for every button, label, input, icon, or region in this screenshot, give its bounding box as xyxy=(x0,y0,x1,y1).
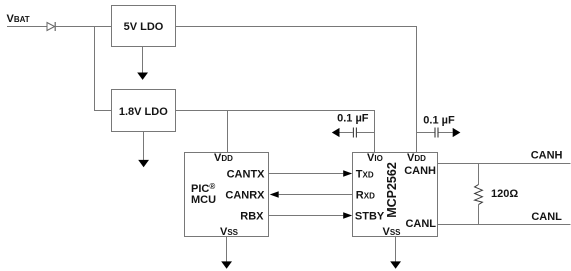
svg-text:MCP2562: MCP2562 xyxy=(385,162,399,218)
wire RBX to STBY with arrow xyxy=(269,212,353,219)
wire branch down to 1.8V LDO input xyxy=(95,27,112,111)
pin VDD of MCP2562 xyxy=(407,152,426,164)
capacitor C1 0.1uF on VIO xyxy=(337,113,374,138)
diode D1 xyxy=(47,22,55,31)
svg-text:CANTX: CANTX xyxy=(227,168,266,180)
ground below 5V LDO xyxy=(137,47,148,80)
pin VSS of MCP2562 xyxy=(383,226,402,238)
svg-text:MCU: MCU xyxy=(191,194,216,206)
node VBAT label xyxy=(7,13,30,25)
ground below 1.8V LDO xyxy=(138,132,149,168)
pin CANRX of PIC xyxy=(225,189,265,201)
wire CANH bus xyxy=(438,163,571,165)
ground arrow right of C2 xyxy=(453,128,461,137)
pin STBY of MCP2562 xyxy=(355,210,385,222)
label PIC(R) MCU xyxy=(191,182,216,206)
wire RXD to CANRX with arrow xyxy=(270,191,353,198)
wire CANTX to TXD with arrow xyxy=(269,170,353,177)
pin RBX of PIC xyxy=(240,210,264,222)
svg-text:RXD: RXD xyxy=(356,189,375,201)
MCU U3 PIC MCU box xyxy=(185,153,269,237)
label MCP2562 rotated xyxy=(385,162,399,218)
ground below MCP2562 VSS xyxy=(390,237,401,269)
pin VDD of PIC xyxy=(214,152,233,164)
svg-text:CANH: CANH xyxy=(404,165,436,177)
regulator U2 1.8V LDO xyxy=(112,90,176,132)
svg-text:TXD: TXD xyxy=(356,168,374,180)
pin RXD of MCP2562 xyxy=(356,189,375,201)
node CANH label xyxy=(531,150,563,162)
svg-text:CANL: CANL xyxy=(531,211,562,223)
wire diode cathode to 5V LDO input xyxy=(55,26,111,28)
svg-text:0.1 µF: 0.1 µF xyxy=(337,113,369,125)
ground arrow left of C1 xyxy=(332,128,340,137)
wire VBAT to diode anode xyxy=(7,26,47,28)
wire branch 1.8V rail to PIC VDD xyxy=(227,111,229,153)
transceiver U4 MCP2562 box xyxy=(353,153,438,237)
pin CANL of MCP2562 xyxy=(405,218,436,230)
svg-text:VDD: VDD xyxy=(407,152,426,164)
regulator U1 5V LDO xyxy=(112,6,176,47)
svg-text:VIO: VIO xyxy=(367,152,383,164)
svg-text:CANH: CANH xyxy=(531,150,563,162)
node CANL label xyxy=(531,211,562,223)
pin TXD of MCP2562 xyxy=(356,168,374,180)
svg-text:STBY: STBY xyxy=(355,210,385,222)
svg-text:VBAT: VBAT xyxy=(7,13,30,25)
resistor R1 120 ohm termination xyxy=(475,164,519,225)
svg-text:VSS: VSS xyxy=(220,226,239,238)
svg-text:VDD: VDD xyxy=(214,152,233,164)
wire 5V rail to MCP2562 VDD xyxy=(176,27,417,153)
wire 1.8V rail to MCP2562 VIO xyxy=(176,111,375,153)
svg-text:1.8V LDO: 1.8V LDO xyxy=(119,106,168,118)
capacitor C2 0.1uF on VDD xyxy=(417,114,455,137)
wire CANL bus xyxy=(438,224,571,226)
svg-text:VSS: VSS xyxy=(383,226,402,238)
svg-text:CANRX: CANRX xyxy=(225,189,265,201)
svg-text:120Ω: 120Ω xyxy=(491,188,518,200)
svg-text:5V LDO: 5V LDO xyxy=(124,21,164,33)
pin CANH of MCP2562 xyxy=(404,165,436,177)
svg-text:CANL: CANL xyxy=(405,218,436,230)
pin VSS of PIC xyxy=(220,226,239,238)
ground below PIC VSS xyxy=(221,237,232,269)
svg-text:0.1 µF: 0.1 µF xyxy=(423,114,455,126)
pin CANTX of PIC xyxy=(227,168,266,180)
svg-text:RBX: RBX xyxy=(240,210,264,222)
pin VIO of MCP2562 xyxy=(367,152,383,164)
